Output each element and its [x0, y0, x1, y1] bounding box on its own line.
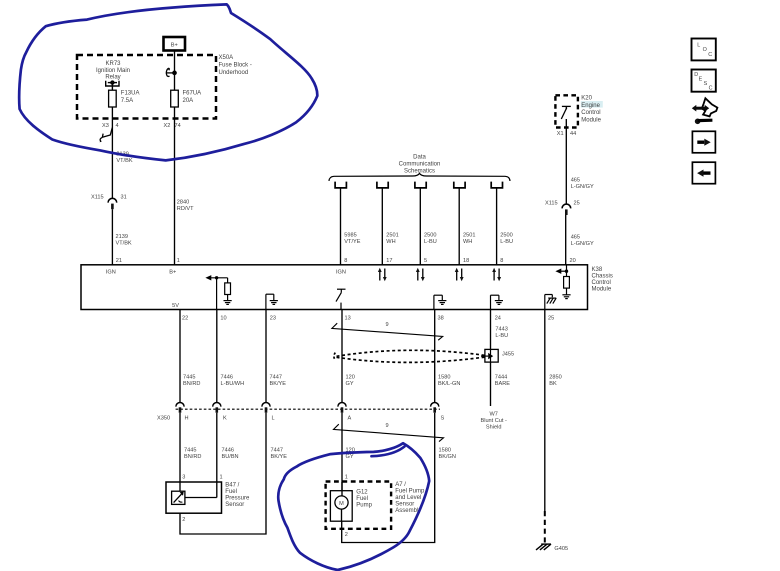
- svg-text:Control: Control: [581, 110, 600, 116]
- wire 2500 to K38 pin 5: [419, 188, 421, 265]
- splice J455: [481, 349, 514, 362]
- svg-text:7443: 7443: [495, 326, 507, 332]
- wire 2501 to K38 pin 17: [381, 188, 383, 265]
- svg-text:VT/YE: VT/YE: [344, 239, 360, 245]
- wire 2850 dashed section: [544, 511, 546, 543]
- label 7446 L-BU/WH upper: [221, 374, 245, 387]
- svg-text:IGN: IGN: [106, 269, 116, 275]
- svg-text:17: 17: [386, 258, 392, 264]
- connector X115 pin 31: [91, 195, 127, 210]
- svg-text:7447: 7447: [271, 448, 283, 454]
- svg-text:O: O: [703, 47, 707, 53]
- connector X350 pin A: [338, 403, 352, 422]
- svg-text:S: S: [704, 81, 708, 87]
- svg-text:2840: 2840: [177, 200, 189, 206]
- svg-text:BK/L-GN: BK/L-GN: [438, 381, 460, 387]
- svg-text:GY: GY: [346, 454, 354, 460]
- label B47 Fuel Pressure Sensor: [225, 482, 250, 508]
- label X50A Fuse Block - Underhood: [219, 55, 252, 76]
- connector X350 pin S: [431, 403, 445, 422]
- svg-text:BK: BK: [549, 381, 557, 387]
- svg-text:Module: Module: [592, 286, 612, 292]
- wire 7447 K38 pin 23 to X350 L: [265, 310, 267, 403]
- svg-text:B47 /: B47 /: [225, 482, 239, 488]
- internal chassis ground pin 25: [545, 295, 556, 310]
- svg-text:KR73: KR73: [105, 61, 121, 67]
- label 2501 WH right: [463, 233, 475, 246]
- wire 2500 to K38 pin 8: [496, 188, 498, 265]
- svg-text:120: 120: [346, 374, 355, 380]
- svg-text:C: C: [708, 52, 712, 58]
- svg-text:E: E: [699, 76, 703, 82]
- svg-text:VT/BK: VT/BK: [116, 158, 132, 164]
- svg-text:44: 44: [570, 131, 576, 137]
- svg-text:Pump: Pump: [356, 502, 372, 508]
- label 2500 L-BU right: [500, 233, 513, 246]
- fuse F67UA: [171, 90, 179, 107]
- svg-text:1: 1: [220, 475, 223, 481]
- internal ground pin 24: [491, 295, 504, 309]
- svg-text:B+: B+: [171, 43, 178, 49]
- svg-text:X50A: X50A: [219, 55, 234, 61]
- svg-text:K20: K20: [581, 96, 592, 102]
- pin label X3 4: [102, 123, 119, 129]
- svg-text:4: 4: [116, 123, 119, 129]
- G12 fuel pump box: [330, 491, 352, 522]
- label 2850 BK: [549, 374, 561, 387]
- label 1580 BK/L-GN upper: [438, 374, 460, 387]
- svg-text:L: L: [272, 415, 275, 421]
- double arrow pin 18: [455, 268, 464, 282]
- svg-text:C: C: [709, 86, 713, 92]
- svg-text:Data: Data: [413, 155, 426, 161]
- svg-text:K: K: [223, 415, 227, 421]
- svg-text:X1: X1: [557, 131, 564, 137]
- svg-text:WH: WH: [463, 239, 472, 245]
- wire 7446 K38 pin 10 to X350 K: [216, 310, 218, 403]
- svg-text:2850: 2850: [549, 374, 561, 380]
- svg-text:5: 5: [424, 258, 427, 264]
- svg-text:M: M: [339, 501, 344, 507]
- svg-text:W7: W7: [490, 412, 498, 418]
- svg-text:BK/YE: BK/YE: [270, 381, 287, 387]
- svg-text:X3: X3: [102, 123, 109, 129]
- svg-text:7446: 7446: [222, 448, 234, 454]
- svg-text:Sensor: Sensor: [395, 502, 414, 508]
- svg-text:21: 21: [116, 258, 122, 264]
- svg-text:7447: 7447: [270, 374, 282, 380]
- connector X350 dashed harness line: [176, 408, 440, 410]
- G12 motor circle: [335, 496, 348, 509]
- svg-text:X115: X115: [545, 201, 558, 207]
- label 2500 L-BU: [424, 233, 437, 246]
- svg-text:Pressure: Pressure: [225, 495, 250, 501]
- wire 120 K38 pin 13 to X350 A: [341, 310, 343, 403]
- module K20 dashed outline: [555, 95, 578, 127]
- internal ground pin 23: [266, 294, 278, 309]
- svg-text:GY: GY: [346, 381, 354, 387]
- svg-text:B+: B+: [169, 269, 176, 275]
- label 7447 BK/YE upper: [270, 374, 287, 387]
- wire 7445 X350 H to B47 pin 3: [179, 413, 181, 492]
- internal pin 20 arrow and resistor to ground: [555, 265, 570, 299]
- battery feed B+ box: [164, 37, 186, 51]
- svg-text:7446: 7446: [221, 374, 233, 380]
- svg-text:Fuel: Fuel: [356, 496, 368, 502]
- svg-text:7.5A: 7.5A: [121, 98, 133, 104]
- double arrow pin 5: [416, 268, 425, 282]
- svg-text:Module: Module: [581, 118, 601, 124]
- connector X115 pin 25: [545, 201, 580, 215]
- svg-text:7445: 7445: [183, 374, 195, 380]
- svg-text:25: 25: [574, 201, 580, 207]
- svg-text:38: 38: [438, 315, 444, 321]
- svg-text:24: 24: [495, 315, 501, 321]
- terminal cup node data wire 5: [491, 182, 502, 188]
- label 7443 L-BU: [495, 326, 508, 339]
- terminal cup node data wire 2: [377, 182, 388, 188]
- svg-text:2: 2: [345, 532, 348, 538]
- svg-text:1580: 1580: [438, 374, 450, 380]
- svg-text:L-BU/WH: L-BU/WH: [221, 381, 245, 387]
- svg-text:X115: X115: [91, 195, 104, 201]
- svg-text:Underhood: Underhood: [219, 70, 249, 76]
- svg-text:A: A: [348, 415, 352, 421]
- label 2139 VT/BK upper: [116, 152, 132, 164]
- svg-text:Fuse Block -: Fuse Block -: [219, 63, 252, 69]
- wire 7445 K38 pin 22 to X350 H: [179, 310, 181, 403]
- wire X115 to K38 pin 20: [565, 215, 567, 265]
- svg-text:23: 23: [270, 315, 276, 321]
- nav icon LOC button: [692, 39, 716, 61]
- pin label X1 44: [557, 131, 576, 137]
- svg-text:9: 9: [386, 423, 389, 429]
- blue annotation loop around fuel pump: [278, 443, 429, 570]
- svg-text:F67UA: F67UA: [183, 91, 202, 97]
- K20 internal switch contact: [561, 106, 571, 119]
- wire 120 X350 A to G12 pin 1: [341, 413, 343, 496]
- label W7 Blunt Cut - Shield: [480, 412, 507, 431]
- module K38 Chassis Control Module box: [81, 265, 588, 310]
- svg-text:S: S: [441, 415, 445, 421]
- svg-text:VT/BK: VT/BK: [116, 241, 132, 247]
- svg-text:L: L: [697, 42, 700, 48]
- wire X115 to K38 pin 21: [111, 209, 113, 265]
- blue annotation pen tail: [372, 447, 405, 457]
- svg-text:20: 20: [570, 258, 576, 264]
- svg-text:Shield: Shield: [486, 425, 502, 431]
- svg-text:74: 74: [175, 123, 181, 129]
- svg-text:BU/BN: BU/BN: [222, 454, 239, 460]
- svg-text:1: 1: [177, 258, 180, 264]
- svg-text:RD/VT: RD/VT: [177, 206, 194, 212]
- wire 120 into pump: [341, 482, 343, 496]
- label F67UA 20A: [183, 91, 202, 104]
- label relay KR73 Ignition Main Relay: [96, 61, 130, 81]
- svg-text:L-GN/GY: L-GN/GY: [571, 184, 594, 190]
- svg-text:2: 2: [182, 517, 185, 523]
- label 2840 RD/VT: [177, 200, 194, 213]
- svg-text:BN/RD: BN/RD: [184, 454, 201, 460]
- svg-text:22: 22: [182, 315, 188, 321]
- internal ground pin 38: [434, 295, 447, 309]
- svg-text:18: 18: [463, 258, 469, 264]
- wire 1580 X350 S to G12 pin 2 route: [342, 413, 435, 543]
- label 7447 BK/YE lower: [271, 448, 288, 461]
- svg-text:2500: 2500: [424, 233, 436, 239]
- label 5985 VT/YE: [344, 233, 360, 246]
- pin label X2 74: [164, 123, 181, 129]
- B47 internal pressure sensor symbol: [172, 491, 185, 504]
- svg-text:Sensor: Sensor: [225, 502, 244, 508]
- label 120 GY upper: [346, 374, 355, 387]
- nav icon next arrow button: [692, 131, 715, 153]
- G12 internal wire: [341, 509, 343, 521]
- wire 7447 X350 L to B47 pin 2 route: [180, 413, 266, 534]
- wire fuse F67UA to K38 pin 1: [174, 107, 176, 265]
- svg-text:L-BU: L-BU: [500, 239, 513, 245]
- wire 1580 K38 pin 38 to X350 S: [434, 310, 436, 403]
- fuse block X50A dashed outline: [77, 55, 216, 119]
- fuse F13UA: [109, 90, 117, 107]
- svg-text:465: 465: [571, 235, 580, 241]
- svg-text:9: 9: [386, 322, 389, 328]
- connector X350 pin K: [213, 403, 227, 422]
- wire 2850 K38 pin 25 toward G405: [544, 310, 546, 512]
- assembly A7 dashed box: [326, 482, 392, 529]
- svg-text:31: 31: [121, 195, 127, 201]
- svg-text:X350: X350: [157, 415, 170, 421]
- svg-text:Control: Control: [592, 280, 611, 286]
- svg-text:8: 8: [344, 258, 347, 264]
- svg-text:J455: J455: [502, 352, 514, 358]
- svg-text:BN/RD: BN/RD: [183, 381, 200, 387]
- blue annotation loop around fuse block: [19, 4, 317, 160]
- svg-text:Engine: Engine: [581, 103, 600, 109]
- wire 7443 K38 pin 24 to splice J455: [490, 310, 492, 350]
- svg-text:7445: 7445: [184, 448, 196, 454]
- svg-text:3: 3: [182, 475, 185, 481]
- svg-text:Fuel Pump: Fuel Pump: [395, 489, 425, 495]
- wire 5985 to K38 pin 8: [340, 188, 342, 265]
- highlight on word Engine: [581, 101, 603, 108]
- sensor B47 box: [166, 482, 222, 513]
- svg-text:8: 8: [500, 258, 503, 264]
- svg-text:Chassis: Chassis: [592, 273, 613, 279]
- terminal cup node data wire 4: [454, 182, 465, 188]
- label 2501 WH: [386, 233, 398, 246]
- svg-text:2501: 2501: [386, 233, 398, 239]
- svg-text:2139: 2139: [116, 234, 128, 240]
- svg-text:WH: WH: [386, 239, 395, 245]
- connector X350 pin L: [262, 403, 275, 422]
- nav icon previous arrow button: [692, 162, 715, 184]
- label 7444 BARE: [495, 374, 511, 387]
- nav icon interactive schematic: [692, 98, 718, 124]
- internal pin 10 arrow and pull-up resistor to ground: [205, 275, 231, 309]
- svg-text:2501: 2501: [463, 233, 475, 239]
- double arrow pin 17: [378, 268, 387, 282]
- label 7446 BU/BN lower: [222, 448, 239, 461]
- svg-text:1: 1: [345, 475, 348, 481]
- svg-text:25: 25: [548, 315, 554, 321]
- svg-text:K38: K38: [592, 267, 603, 273]
- wire K20 to X115 pin 25: [565, 119, 567, 204]
- double arrow pin 8: [492, 268, 501, 282]
- svg-text:X2: X2: [164, 123, 171, 129]
- relay KR73 contact symbol: [106, 81, 119, 91]
- label 465 L-GN/GY lower: [571, 235, 594, 248]
- svg-text:20A: 20A: [183, 98, 194, 104]
- svg-text:2500: 2500: [500, 233, 512, 239]
- svg-text:L-BU: L-BU: [424, 239, 437, 245]
- svg-text:13: 13: [345, 315, 351, 321]
- label A7 Fuel Pump and Level Sensor Assembly: [395, 482, 425, 514]
- label K38 Chassis Control Module: [592, 267, 613, 293]
- svg-text:BK/GN: BK/GN: [439, 454, 456, 460]
- connector X350 pin H: [176, 403, 189, 422]
- terminal cup node data wire 3: [415, 182, 426, 188]
- B47 internal wire sensor to pin1 drop: [185, 497, 217, 499]
- label Data Communication Schematics: [399, 155, 441, 175]
- svg-text:465: 465: [571, 178, 580, 184]
- svg-text:1580: 1580: [439, 448, 451, 454]
- terminal symbol below X3 pin 4: [100, 128, 113, 143]
- terminal clip on B+ wire node: [166, 68, 176, 76]
- svg-text:5V: 5V: [172, 303, 179, 309]
- svg-text:Blunt Cut -: Blunt Cut -: [480, 418, 507, 424]
- label 7445 BN/RD upper: [183, 374, 200, 387]
- wire 7444 J455 to blunt cut: [490, 362, 492, 406]
- wire fuse F13UA to X115 pin 31: [111, 107, 113, 199]
- label 7445 BN/RD lower: [184, 448, 201, 461]
- label 2139 VT/BK lower: [116, 234, 132, 247]
- wire 2501 to K38 pin 18: [458, 188, 460, 265]
- svg-text:Ignition Main: Ignition Main: [96, 68, 130, 74]
- svg-text:IGN: IGN: [336, 269, 346, 275]
- B47 internal wire pin1 to sensor: [216, 482, 218, 498]
- svg-text:10: 10: [220, 315, 226, 321]
- label 120 GY lower: [346, 448, 355, 461]
- svg-text:7444: 7444: [495, 374, 507, 380]
- nav icon DESC button: [692, 70, 716, 92]
- svg-text:A7 /: A7 /: [395, 482, 406, 488]
- svg-text:Fuel: Fuel: [225, 489, 237, 495]
- twisted pair slash mark upper with count 9: [332, 322, 443, 340]
- brace over data wires: [329, 173, 510, 181]
- terminal cup node data wire 1: [335, 182, 346, 188]
- wire B+ to fuse block: [174, 51, 176, 91]
- svg-text:BARE: BARE: [495, 381, 511, 387]
- svg-text:and Level: and Level: [395, 495, 421, 501]
- twisted pair slash mark lower with count 9: [334, 423, 444, 442]
- label 465 L-GN/GY upper: [571, 178, 594, 191]
- svg-text:Relay: Relay: [105, 75, 120, 81]
- internal switch pin 13: [336, 289, 346, 309]
- svg-text:G405: G405: [554, 546, 568, 552]
- label 1580 BK/GN lower: [439, 448, 456, 461]
- svg-text:F13UA: F13UA: [121, 91, 140, 97]
- svg-text:Communication: Communication: [399, 162, 441, 168]
- ground G405: [536, 544, 568, 552]
- label K20 Engine Control Module: [581, 96, 601, 124]
- svg-text:G12: G12: [356, 489, 368, 495]
- svg-text:5985: 5985: [344, 233, 356, 239]
- svg-text:L-BU: L-BU: [495, 333, 508, 339]
- label G12 Fuel Pump: [356, 489, 372, 508]
- label F13UA 7.5A: [121, 91, 140, 104]
- svg-text:H: H: [185, 415, 189, 421]
- wire 7446 X350 K to B47 pin 1: [216, 413, 218, 482]
- svg-text:BK/YE: BK/YE: [271, 454, 288, 460]
- shield ellipse around twisted pair: [334, 350, 485, 362]
- svg-text:L-GN/GY: L-GN/GY: [571, 241, 594, 247]
